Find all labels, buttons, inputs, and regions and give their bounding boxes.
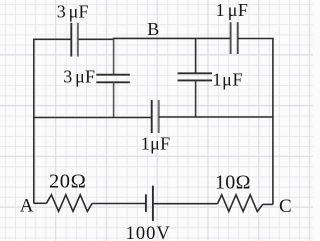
wire top rail right segment <box>238 38 273 40</box>
wire top rail middle segment <box>78 37 230 40</box>
svg-text:A: A <box>20 196 34 217</box>
wire middle rail right <box>159 116 273 118</box>
wire branch 2 upper <box>195 38 197 73</box>
svg-text:C: C <box>279 196 292 217</box>
wire branch 1 upper <box>113 39 115 74</box>
svg-text:3μF: 3μF <box>63 66 95 86</box>
wire branch 2 lower <box>195 81 197 118</box>
svg-text:1μF: 1μF <box>216 0 249 20</box>
wire bottom between battery and R2 <box>153 203 217 205</box>
svg-text:100V: 100V <box>126 224 171 241</box>
wire branch 1 lower <box>113 83 115 118</box>
wire right rail <box>272 38 274 205</box>
svg-text:B: B <box>147 19 159 39</box>
svg-text:3μF: 3μF <box>57 1 89 21</box>
capacitor 3uF top <box>71 23 78 57</box>
wire bottom between R1 and battery <box>92 203 146 205</box>
svg-text:20Ω: 20Ω <box>49 171 86 193</box>
capacitor 1uF center <box>152 100 159 133</box>
svg-text:10Ω: 10Ω <box>215 171 251 193</box>
resistor 20 ohm <box>46 195 92 212</box>
wire bottom left lead <box>34 202 47 204</box>
svg-text:1μF: 1μF <box>212 69 243 89</box>
wire bottom right lead <box>263 203 273 205</box>
battery 100V <box>146 186 153 221</box>
wire left rail <box>33 39 35 204</box>
resistor 10 ohm <box>218 195 263 212</box>
capacitor 3uF middle <box>96 75 130 83</box>
wire middle rail left <box>34 117 152 119</box>
capacitor 1uF middle <box>178 73 213 80</box>
capacitor 1uF top <box>231 22 238 54</box>
svg-text:1μF: 1μF <box>141 134 171 154</box>
wire top rail left segment <box>34 38 71 40</box>
